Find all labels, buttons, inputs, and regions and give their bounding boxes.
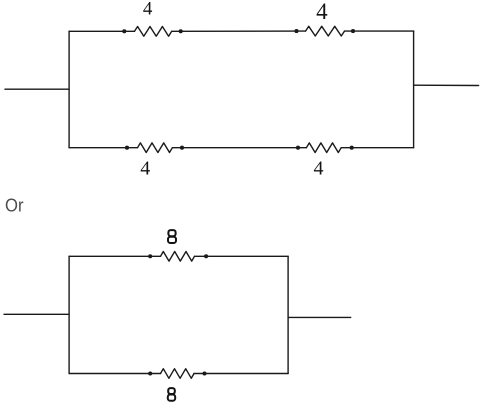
svg-text:Or: Or xyxy=(5,195,24,216)
junction dot: right of R4 xyxy=(350,146,354,150)
wire: bottom circuit top branch left segment xyxy=(69,255,160,257)
wire: top circuit left vertical bus xyxy=(68,31,70,147)
wire: top circuit left lead xyxy=(5,88,69,90)
resistor R1 (4 ohm, top-left zigzag) xyxy=(135,27,172,37)
wire: top branch left segment xyxy=(69,30,134,32)
junction dot: left of R4 xyxy=(296,146,300,150)
junction dot: right of R1 xyxy=(179,29,183,33)
junction dot: right of R5 xyxy=(204,254,208,258)
junction dot: right of R3 xyxy=(180,146,184,150)
wire: bottom circuit left vertical bus xyxy=(68,256,70,373)
svg-text:4: 4 xyxy=(314,158,324,180)
resistor R5 (8 ohm, top zigzag) xyxy=(161,252,195,262)
junction dot: left of R5 xyxy=(148,254,152,258)
wire: bottom circuit bottom branch right segment xyxy=(194,373,288,375)
wire: bottom circuit right lead xyxy=(288,316,351,318)
svg-text:4: 4 xyxy=(143,0,153,20)
junction dot: left of R2 xyxy=(294,29,298,33)
wire: bottom branch left segment xyxy=(69,147,137,149)
svg-text:4: 4 xyxy=(140,158,150,180)
junction dot: left of R3 xyxy=(125,146,129,150)
value label 8 (R6), squarish glyph drawn as shapes xyxy=(168,388,175,401)
wire: top branch right segment xyxy=(345,30,414,32)
junction dot: left of R6 xyxy=(148,371,152,375)
junction dot: right of R2 xyxy=(351,29,355,33)
wire: top branch middle segment xyxy=(172,30,306,32)
wire: bottom branch middle segment xyxy=(172,147,306,149)
resistor R6 (8 ohm, bottom zigzag) xyxy=(161,369,195,379)
resistor R4 (4 ohm, bottom-right zigzag) xyxy=(306,143,341,153)
junction dot: right of R6 xyxy=(202,371,206,375)
resistor R2 (4 ohm, top-right zigzag) xyxy=(306,26,345,36)
value label 8 (R5), squarish glyph drawn as shapes xyxy=(168,230,176,243)
wire: top circuit right vertical bus xyxy=(413,31,415,148)
wire: bottom circuit top branch right segment xyxy=(195,255,289,257)
wire: bottom circuit bottom branch left segment xyxy=(69,373,160,375)
wire: top circuit right lead xyxy=(414,84,479,86)
resistor R3 (4 ohm, bottom-left zigzag) xyxy=(138,143,173,153)
wire: bottom circuit left lead xyxy=(4,313,69,315)
svg-text:4: 4 xyxy=(316,0,328,24)
junction dot: left of R1 xyxy=(122,29,126,33)
wire: bottom circuit right vertical bus xyxy=(287,256,289,373)
wire: bottom branch right segment xyxy=(341,147,413,149)
